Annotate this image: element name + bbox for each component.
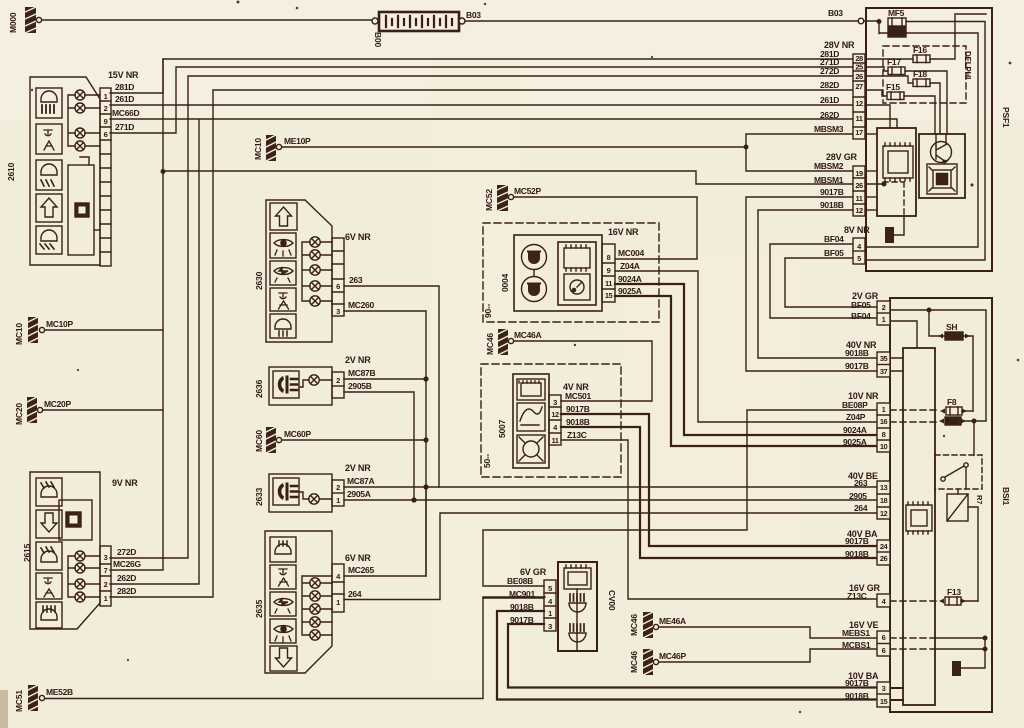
- wire 9024A: [615, 284, 877, 435]
- PSF1 pin column 8V NR: [853, 238, 865, 264]
- wire Z04A: [615, 271, 877, 422]
- svg-text:BF05: BF05: [851, 300, 871, 310]
- wire MF5 feed: [866, 22, 985, 261]
- svg-text:3: 3: [336, 307, 340, 316]
- vertical ground branch left: [110, 59, 163, 570]
- wire MEBS1: [659, 627, 877, 638]
- wire MC20P: [40, 409, 163, 411]
- ground MC10 (ME10P): [266, 135, 282, 161]
- svg-text:2633: 2633: [254, 487, 264, 506]
- wire MC87B: [344, 378, 426, 380]
- wire BE08P dashed: [890, 409, 940, 411]
- svg-text:MF5: MF5: [888, 8, 905, 18]
- BSI ground flag: [952, 638, 985, 676]
- svg-text:27: 27: [855, 82, 863, 91]
- svg-text:1: 1: [882, 315, 886, 324]
- svg-text:MC60: MC60: [254, 430, 264, 452]
- svg-text:MC51: MC51: [14, 690, 24, 712]
- wire BF05 (PSF1 to BSI): [785, 258, 877, 307]
- svg-text:1: 1: [336, 598, 340, 607]
- svg-text:6V NR: 6V NR: [345, 232, 371, 242]
- svg-text:6: 6: [882, 633, 886, 642]
- svg-text:MC10: MC10: [253, 138, 263, 160]
- wire 262D internal: [865, 119, 897, 128]
- svg-text:262D: 262D: [117, 573, 136, 583]
- wire BE08B / BE08P: [483, 410, 877, 586]
- svg-text:9017B: 9017B: [820, 187, 844, 197]
- wire MC52P / MC004: [514, 197, 697, 259]
- svg-text:6V NR: 6V NR: [345, 553, 371, 563]
- BSI pin column 2V GR: [877, 301, 890, 325]
- svg-text:11: 11: [605, 279, 612, 288]
- svg-text:B03: B03: [828, 8, 843, 18]
- svg-text:MC66D: MC66D: [112, 108, 139, 118]
- svg-text:12: 12: [551, 410, 559, 419]
- wire 282D-F15: [865, 90, 935, 134]
- svg-text:9018B: 9018B: [820, 200, 844, 210]
- wire 9018B stub: [865, 209, 877, 211]
- svg-text:18: 18: [880, 496, 888, 505]
- svg-text:MC60P: MC60P: [284, 429, 311, 439]
- svg-text:MC87B: MC87B: [348, 368, 375, 378]
- svg-text:MC52P: MC52P: [514, 186, 541, 196]
- svg-text:26: 26: [855, 181, 863, 190]
- svg-text:2636: 2636: [254, 379, 264, 398]
- svg-text:MC20: MC20: [14, 403, 24, 425]
- relay coil R7: [947, 489, 978, 601]
- node B03: [858, 18, 864, 24]
- 2615 inner block: [59, 500, 92, 540]
- wire 261D internal: [865, 105, 890, 128]
- svg-text:MBSM2: MBSM2: [814, 161, 844, 171]
- unit 5007 (dashed): [481, 364, 621, 477]
- svg-text:MF4: MF4: [889, 29, 904, 38]
- wire 9018B (CV00 to BSI): [497, 611, 877, 700]
- wire Z04P dashed: [890, 421, 940, 423]
- PSF1 pin column 28V GR: [853, 166, 865, 216]
- svg-text:2: 2: [336, 483, 340, 492]
- wire 10VBA stubs: [890, 688, 903, 700]
- svg-text:2905: 2905: [849, 491, 867, 501]
- svg-text:MEBS1: MEBS1: [842, 628, 870, 638]
- wire 9017B (5007 to BSI 40V BA): [561, 414, 877, 546]
- wire BF04 (PSF1 to BSI): [770, 244, 877, 318]
- svg-text:3: 3: [548, 622, 552, 631]
- connector 2610: [30, 77, 100, 265]
- wire BF05 internal / SH feed: [890, 310, 986, 420]
- ground MC60: [266, 427, 282, 453]
- svg-text:9018B: 9018B: [845, 549, 869, 559]
- svg-text:2610: 2610: [6, 162, 16, 181]
- ground MC46 (MC46A): [498, 329, 514, 355]
- 2636 bulb: [299, 375, 332, 387]
- svg-text:Z04P: Z04P: [846, 412, 866, 422]
- svg-text:263: 263: [349, 275, 363, 285]
- svg-text:17: 17: [855, 128, 863, 137]
- svg-text:15V NR: 15V NR: [108, 70, 139, 80]
- wire 9025A: [615, 296, 877, 446]
- svg-text:F14: F14: [946, 419, 958, 426]
- wire 9017B (PSF1 to BSI 40V NR): [746, 197, 877, 371]
- svg-text:MC26G: MC26G: [113, 559, 141, 569]
- wire MC260: [344, 311, 426, 576]
- fuse F17: [888, 67, 905, 75]
- svg-text:19: 19: [855, 169, 863, 178]
- connector 2635: [265, 531, 332, 673]
- svg-text:15: 15: [605, 291, 613, 300]
- svg-text:9V NR: 9V NR: [112, 478, 138, 488]
- svg-text:16V NR: 16V NR: [608, 227, 639, 237]
- svg-text:50--: 50--: [482, 453, 492, 468]
- wire 272D-F18: [865, 76, 940, 134]
- junction MC60P: [424, 438, 428, 442]
- svg-text:BE08P: BE08P: [842, 400, 868, 410]
- wire 261D: [110, 104, 853, 106]
- 2633 pin strip: [332, 480, 344, 506]
- junction MC87B/ground: [424, 377, 428, 381]
- 2615 pin strip: [100, 546, 111, 606]
- wire 9017B (CV00 to BSI): [508, 624, 877, 688]
- svg-text:F13: F13: [947, 587, 961, 597]
- wire MF4 feed: [866, 33, 978, 247]
- svg-text:9024A: 9024A: [618, 274, 642, 284]
- svg-text:13: 13: [880, 483, 888, 492]
- junction MC87A/ground: [424, 485, 428, 489]
- svg-text:MC20P: MC20P: [44, 399, 71, 409]
- svg-text:Z04A: Z04A: [620, 261, 640, 271]
- svg-text:BF05: BF05: [824, 248, 844, 258]
- svg-text:2: 2: [336, 376, 340, 385]
- 2610 pin strip: [100, 88, 111, 266]
- svg-text:1: 1: [104, 594, 108, 603]
- svg-text:7: 7: [104, 566, 108, 575]
- wire MC901: [483, 597, 544, 599]
- connector 2630: [266, 200, 332, 342]
- svg-text:281D: 281D: [115, 82, 134, 92]
- svg-text:M000: M000: [8, 12, 18, 33]
- svg-text:3: 3: [882, 684, 886, 693]
- BSI pin column 40V BE: [877, 481, 890, 519]
- svg-text:F16: F16: [913, 45, 927, 55]
- 2610 lamp bulbs: [68, 90, 100, 151]
- svg-text:264: 264: [854, 503, 868, 513]
- svg-text:MBSM3: MBSM3: [814, 124, 844, 134]
- ground MC20: [27, 397, 43, 423]
- BSI pin column 10V NR: [877, 403, 890, 452]
- BSI pin column 40V BA: [877, 540, 890, 565]
- wire ME52B: [45, 597, 545, 699]
- svg-text:3: 3: [104, 553, 108, 562]
- svg-text:25: 25: [855, 63, 863, 72]
- svg-text:12: 12: [855, 206, 863, 215]
- svg-text:271D: 271D: [115, 122, 134, 132]
- wire BF04 internal: [890, 321, 917, 348]
- switch SH: [938, 332, 973, 411]
- svg-text:2: 2: [104, 580, 108, 589]
- svg-text:Z13C: Z13C: [847, 591, 867, 601]
- ground MC51: [28, 685, 45, 711]
- svg-text:MC10P: MC10P: [46, 319, 73, 329]
- BSI microcontroller: [906, 502, 932, 534]
- wire M000 to battery B00: [42, 19, 374, 21]
- wire 272D: [110, 76, 853, 558]
- svg-text:BE08B: BE08B: [507, 576, 533, 586]
- svg-text:9: 9: [104, 117, 108, 126]
- wire MEBS1 internal: [890, 637, 935, 639]
- svg-text:B03: B03: [466, 10, 481, 20]
- 2633 bulb: [299, 492, 332, 504]
- 0004 pin strip: [602, 244, 615, 302]
- svg-text:SH: SH: [946, 322, 957, 332]
- svg-text:MC10: MC10: [14, 323, 24, 345]
- svg-text:9017B: 9017B: [510, 615, 534, 625]
- fuse box PSF1: [866, 8, 992, 271]
- wire 281D-F16: [865, 14, 986, 59]
- svg-text:282D: 282D: [117, 586, 136, 596]
- svg-text:6: 6: [882, 646, 886, 655]
- wire 264: [344, 513, 878, 600]
- svg-text:MC46: MC46: [485, 333, 495, 355]
- svg-text:MC901: MC901: [509, 589, 535, 599]
- svg-text:MCBS1: MCBS1: [842, 640, 871, 650]
- svg-text:9017B: 9017B: [566, 404, 590, 414]
- BSI pin column 40V NR: [877, 352, 890, 377]
- svg-text:5: 5: [857, 254, 861, 263]
- wire ME10P: [282, 146, 746, 148]
- BSI inner column: [903, 348, 935, 705]
- fuse F18: [913, 79, 930, 87]
- svg-text:272D: 272D: [117, 547, 136, 557]
- fuse F15: [887, 92, 904, 100]
- 2635 bulbs: [302, 576, 332, 640]
- 2630 bulbs: [302, 237, 332, 306]
- svg-text:2905B: 2905B: [348, 381, 372, 391]
- wire 271D-F17: [865, 67, 947, 134]
- wire 40VNR stubs: [890, 358, 903, 371]
- BSI pin column 10V BA: [877, 682, 890, 707]
- svg-text:1: 1: [882, 405, 886, 414]
- wire MCBS1: [659, 649, 877, 662]
- fuse MF5: [879, 18, 906, 34]
- svg-text:11: 11: [552, 436, 559, 445]
- svg-text:PSF1: PSF1: [1001, 107, 1011, 128]
- connector 2636: [269, 367, 332, 405]
- wire MC10P: [45, 329, 163, 331]
- svg-text:261D: 261D: [820, 95, 839, 105]
- svg-text:2V NR: 2V NR: [345, 355, 371, 365]
- wire B00 to B03: [465, 20, 858, 22]
- wire MC60P: [282, 439, 426, 441]
- svg-text:2905A: 2905A: [347, 489, 371, 499]
- PSF1 logic module: [877, 128, 916, 216]
- ground M000: [25, 7, 42, 33]
- 2615 bulbs: [68, 551, 100, 602]
- wire 9018B (PSF1 to BSI 40V NR): [758, 210, 877, 358]
- CV00 pin strip: [544, 580, 556, 631]
- svg-text:11: 11: [856, 194, 863, 203]
- junction 2905A/2905B: [412, 498, 416, 502]
- svg-text:9: 9: [607, 266, 611, 275]
- svg-text:F18: F18: [913, 69, 927, 79]
- fuse MF4: [888, 27, 906, 37]
- fuse F16: [913, 55, 930, 63]
- svg-text:2V NR: 2V NR: [345, 463, 371, 473]
- wire MBSM3: [746, 134, 853, 171]
- wire MBSM3 stub: [865, 133, 877, 135]
- svg-text:9025A: 9025A: [843, 437, 867, 447]
- svg-text:B00: B00: [373, 32, 383, 47]
- ground MC10 (MC10P): [28, 317, 45, 343]
- svg-text:CV00: CV00: [607, 590, 617, 611]
- svg-text:9017B: 9017B: [845, 678, 869, 688]
- PSF1 ground flag: [885, 216, 904, 243]
- svg-text:2: 2: [104, 104, 108, 113]
- svg-text:26: 26: [880, 554, 888, 563]
- relay contact (dashed box): [935, 455, 982, 489]
- svg-text:5007: 5007: [497, 419, 507, 438]
- ground MC46 (MC46P): [643, 649, 659, 675]
- svg-text:9018B: 9018B: [566, 417, 590, 427]
- svg-text:282D: 282D: [820, 80, 839, 90]
- wire 271D: [110, 67, 853, 133]
- svg-text:26: 26: [855, 72, 863, 81]
- svg-text:8: 8: [607, 253, 611, 262]
- 2635 pin strip: [332, 564, 344, 612]
- svg-text:MC501: MC501: [565, 391, 591, 401]
- PSF1 output stage: [919, 134, 965, 198]
- 5007 pin strip: [549, 395, 561, 445]
- svg-text:15: 15: [880, 697, 888, 706]
- svg-text:MC46P: MC46P: [659, 651, 686, 661]
- connector 2633: [269, 474, 332, 512]
- BSI pin column 16V GR: [877, 594, 890, 607]
- fuse F13: [939, 597, 978, 605]
- unit 0004 (dashed): [483, 223, 659, 322]
- svg-text:MC46: MC46: [629, 651, 639, 673]
- svg-text:MC260: MC260: [348, 300, 374, 310]
- svg-text:R7: R7: [975, 495, 984, 504]
- 2610 inner switch block: [68, 157, 100, 255]
- junction ME10P/MBSM: [744, 145, 748, 149]
- svg-text:9025A: 9025A: [618, 286, 642, 296]
- svg-text:37: 37: [880, 367, 888, 376]
- svg-text:2615: 2615: [22, 543, 32, 562]
- wire 2905B: [344, 392, 414, 499]
- svg-text:BF04: BF04: [851, 311, 871, 321]
- wire 9018B (5007 to BSI 40V BA): [561, 427, 877, 558]
- 2630 pin strip: [332, 238, 344, 316]
- wire Z13C: [561, 440, 877, 599]
- svg-text:1: 1: [548, 609, 552, 618]
- svg-text:9018B: 9018B: [845, 348, 869, 358]
- fuse F8: [940, 407, 973, 415]
- svg-text:MC87A: MC87A: [347, 476, 374, 486]
- svg-text:MC265: MC265: [348, 565, 374, 575]
- svg-text:262D: 262D: [820, 110, 839, 120]
- svg-text:ME46A: ME46A: [659, 616, 686, 626]
- svg-text:MC52: MC52: [484, 189, 494, 211]
- svg-text:Z13C: Z13C: [567, 430, 587, 440]
- svg-text:8V NR: 8V NR: [844, 225, 870, 235]
- unit CV00: [558, 562, 597, 651]
- svg-text:BF04: BF04: [824, 234, 844, 244]
- ground MC52: [497, 185, 514, 211]
- svg-text:11: 11: [856, 114, 863, 123]
- svg-text:12: 12: [880, 509, 888, 518]
- svg-text:6: 6: [104, 130, 108, 139]
- wire Z13C dashed: [890, 600, 940, 602]
- svg-text:F8: F8: [947, 397, 957, 407]
- svg-text:10: 10: [880, 442, 888, 451]
- svg-text:ME10P: ME10P: [284, 136, 311, 146]
- fuse F14: [939, 417, 986, 455]
- wire 262D / MC66D: [110, 119, 853, 584]
- wire 282D: [110, 90, 853, 597]
- svg-text:2: 2: [882, 303, 886, 312]
- svg-text:BSI1: BSI1: [1001, 487, 1011, 506]
- svg-text:261D: 261D: [115, 94, 134, 104]
- wire 281D (2610 to PSF1): [110, 59, 853, 93]
- svg-text:9017B: 9017B: [845, 361, 869, 371]
- svg-text:264: 264: [348, 589, 362, 599]
- wire MBSM1 stub: [865, 183, 884, 185]
- svg-text:2630: 2630: [254, 271, 264, 290]
- svg-text:MC004: MC004: [618, 248, 644, 258]
- wire 263 (2630 to BSI): [344, 286, 439, 487]
- svg-text:F17: F17: [887, 57, 901, 67]
- wire 9017B stub: [865, 196, 877, 198]
- svg-text:9024A: 9024A: [843, 425, 867, 435]
- svg-text:MC46A: MC46A: [514, 330, 541, 340]
- DELPHI module (dashed): [883, 46, 966, 103]
- 2636 pin strip: [332, 372, 344, 398]
- battery B00: [372, 12, 465, 31]
- svg-text:9017B: 9017B: [845, 536, 869, 546]
- svg-text:272D: 272D: [820, 66, 839, 76]
- ground MC46 (ME46A): [643, 612, 659, 638]
- svg-text:0004: 0004: [500, 273, 510, 292]
- svg-text:F15: F15: [886, 82, 900, 92]
- svg-text:MC46: MC46: [629, 614, 639, 636]
- wire MC87A / 263 to BSI: [344, 486, 878, 488]
- wire MCBS1 internal: [890, 648, 935, 650]
- connector 2615: [30, 472, 100, 629]
- svg-text:1: 1: [104, 92, 108, 101]
- junction MBSM1 left: [161, 170, 165, 174]
- svg-text:3: 3: [553, 398, 557, 407]
- svg-text:16: 16: [880, 417, 888, 426]
- svg-text:9018B: 9018B: [845, 691, 869, 701]
- wire MC46A / MC501: [514, 341, 652, 401]
- svg-text:12: 12: [855, 99, 863, 108]
- wire 2905 (2905A to BSI): [344, 499, 878, 501]
- svg-text:90--: 90--: [483, 303, 493, 318]
- svg-text:MBSM1: MBSM1: [814, 175, 844, 185]
- svg-text:35: 35: [880, 354, 888, 363]
- wire MBSM2 stub: [865, 170, 877, 172]
- svg-text:1: 1: [336, 496, 340, 505]
- svg-text:5: 5: [548, 584, 552, 593]
- wire MBSM1 long: [163, 171, 853, 184]
- svg-text:2635: 2635: [254, 599, 264, 618]
- svg-text:6: 6: [336, 282, 340, 291]
- PSF1 pin column 28V NR: [853, 54, 865, 139]
- body computer BSI1: [890, 298, 992, 712]
- wire MC265: [344, 487, 426, 576]
- svg-text:ME52B: ME52B: [46, 687, 73, 697]
- svg-text:DELPHI: DELPHI: [963, 51, 972, 79]
- svg-text:8: 8: [882, 430, 886, 439]
